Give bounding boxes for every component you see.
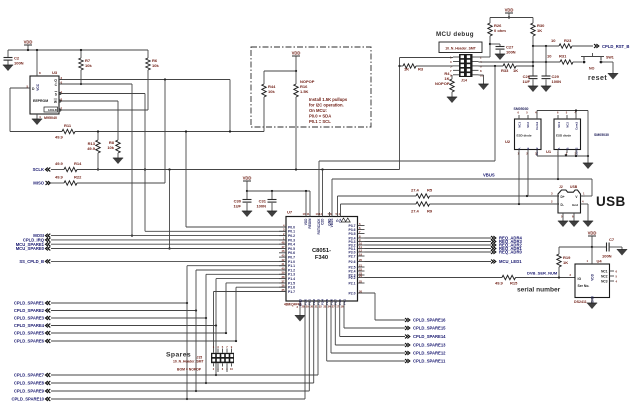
svg-text:10: 10	[230, 367, 233, 371]
svg-text:P2.0: P2.0	[349, 291, 356, 295]
svg-text:P0.1 = SCL: P0.1 = SCL	[309, 119, 331, 124]
EEPROM U3 (M95040)	[30, 70, 59, 120]
wire U3 pin HOLD line	[59, 109, 148, 111]
svg-text:11: 11	[307, 212, 310, 216]
U3 pin 4 GND stub and ground	[32, 114, 42, 125]
svg-text:2: 2	[551, 200, 553, 204]
svg-text:100N: 100N	[552, 79, 562, 84]
svg-text:MCU debug: MCU debug	[436, 31, 474, 38]
svg-text:10: 10	[303, 212, 306, 216]
svg-text:VDD: VDD	[292, 51, 301, 56]
svg-text:4: 4	[616, 279, 618, 283]
svg-text:CPLD_SPARE15: CPLD_SPARE15	[413, 326, 446, 331]
node REQ_ADR4 port	[491, 236, 522, 241]
wire RST trace from MCU	[318, 161, 320, 217]
svg-text:A: A	[557, 147, 561, 150]
svg-text:VDD: VDD	[588, 231, 597, 236]
svg-text:22: 22	[359, 267, 362, 271]
node CPLD_SPARE13 port	[405, 343, 446, 348]
svg-text:R31: R31	[559, 54, 567, 59]
resistor R6 10k	[146, 50, 160, 110]
svg-text:DVB_SER_NUM: DVB_SER_NUM	[527, 271, 558, 276]
wire MCU VDD rail	[247, 190, 310, 192]
power rail VDD top-left	[8, 49, 148, 51]
wire CPLD_SPARE11 route	[326, 301, 328, 361]
svg-text:R9: R9	[427, 209, 433, 214]
node CPLD_SPARE1 port	[14, 301, 50, 306]
wire reset row	[479, 61, 561, 63]
resistor R4 1K NOPOP with ground	[435, 71, 457, 103]
resistor R14 49.9	[55, 161, 82, 172]
svg-text:CPLD_SPARE1: CPLD_SPARE1	[14, 301, 45, 306]
resistor R33 1K	[501, 64, 518, 73]
resistor R26 0 ohm	[488, 18, 506, 58]
svg-text:46: 46	[282, 249, 285, 253]
svg-text:1K: 1K	[563, 260, 568, 265]
ground USB shield 2	[569, 213, 579, 227]
node CPLD_SPARE16 port	[405, 318, 446, 323]
svg-text:NC1: NC1	[517, 122, 521, 128]
svg-text:USB: USB	[570, 185, 578, 189]
power symbol VDD (debug)	[505, 8, 514, 19]
wire U3 pin D to SDA elbow	[10, 87, 30, 89]
svg-text:U3: U3	[52, 70, 58, 75]
svg-text:R11: R11	[64, 123, 72, 128]
wire VBUS riser and line	[331, 179, 333, 217]
wire SDA drop to P0.0	[185, 132, 187, 228]
svg-text:SM05030: SM05030	[594, 133, 609, 137]
wire Q-branch down to MISO	[164, 80, 166, 184]
node REQ_ADR2 port	[491, 243, 522, 248]
wire ESD com2 rail	[537, 155, 588, 157]
svg-text:9: 9	[231, 345, 233, 349]
svg-text:U4: U4	[597, 259, 603, 264]
svg-text:J14: J14	[461, 79, 467, 83]
svg-text:Install 1.5K pullups: Install 1.5K pullups	[309, 97, 348, 102]
node MCU_SPARE0 port	[16, 246, 51, 251]
svg-text:100N: 100N	[14, 61, 24, 66]
resistor R7 10k	[79, 49, 93, 85]
node CPLD_SPARE2 port	[14, 308, 50, 313]
svg-text:10: 10	[359, 241, 362, 245]
svg-text:2: 2	[480, 56, 482, 60]
node CPLD_SPARE12 port	[405, 351, 446, 356]
svg-text:4: 4	[582, 200, 584, 204]
wire VBUS into USB pin V	[591, 179, 593, 196]
svg-text:27.4: 27.4	[411, 188, 420, 193]
wire CPLD_SPARE16 route from P2.0	[358, 292, 376, 294]
wire CPLD_SPARE1 route	[51, 302, 187, 304]
svg-text:19: 19	[359, 252, 362, 256]
wire U3 pin Q line	[59, 79, 230, 81]
svg-text:NOPOP: NOPOP	[435, 81, 450, 86]
wire U1 top stubs	[557, 115, 559, 119]
capacitor C2 100N	[3, 50, 24, 71]
capacitor C27 100N	[490, 44, 516, 60]
svg-text:NC1: NC1	[557, 122, 561, 128]
node SS_CPLD_B port	[19, 259, 50, 264]
wire SCLK line	[51, 169, 64, 171]
MCU U7 C8051-F340 body	[284, 210, 358, 307]
svg-text:7: 7	[226, 345, 228, 349]
svg-text:34: 34	[328, 305, 331, 309]
svg-text:6: 6	[557, 111, 559, 115]
wire REQ_ADR2 line	[365, 244, 492, 246]
resistor R5 27.4	[411, 188, 433, 199]
wire CPLD_SPARE6 route	[51, 340, 236, 342]
wire SDA line (node SDA)	[10, 131, 62, 133]
svg-text:P0.0 = SDA: P0.0 = SDA	[309, 114, 331, 119]
wire SS_CPLD_B line	[51, 260, 286, 262]
svg-text:R15: R15	[510, 281, 518, 286]
wire REQ_ADR0 line	[365, 251, 492, 253]
svg-text:VDD: VDD	[505, 8, 514, 13]
capacitor C30 1UF	[233, 191, 252, 217]
wire U2 pin A to D+ line	[518, 150, 520, 205]
svg-text:3: 3	[450, 60, 452, 64]
svg-text:1: 1	[586, 259, 588, 263]
power symbol VDD (pullup box)	[292, 51, 301, 73]
svg-text:100N: 100N	[506, 50, 516, 55]
resistor R31 10	[547, 54, 573, 65]
svg-text:CPLD_SPARE10: CPLD_SPARE10	[11, 397, 44, 402]
MCU right pins P3/P2	[349, 222, 365, 296]
resistor R23 10	[551, 38, 572, 48]
svg-text:C7: C7	[609, 237, 615, 242]
label MCU debug	[436, 31, 474, 38]
resistor R9 27.4	[411, 202, 433, 214]
svg-text:CPLD_SPARE8: CPLD_SPARE8	[14, 381, 45, 386]
svg-text:NC2: NC2	[601, 274, 608, 278]
svg-text:7: 7	[450, 69, 452, 73]
svg-text:C8051-: C8051-	[312, 248, 331, 254]
svg-text:EEPROM: EEPROM	[33, 99, 48, 103]
svg-text:49.9: 49.9	[55, 175, 64, 180]
svg-text:27.4: 27.4	[411, 209, 420, 214]
svg-text:D+: D+	[561, 195, 565, 199]
svg-text:CPLD_SPARE2: CPLD_SPARE2	[14, 308, 45, 313]
svg-text:16: 16	[341, 305, 344, 309]
U1 pin B no-connect	[565, 150, 569, 158]
node CPLD_IRQ port	[23, 238, 50, 243]
svg-text:Gnd: Gnd	[572, 203, 578, 207]
node CPLD_SPARE10 port	[11, 397, 50, 402]
capacitor C26 1UF	[522, 46, 538, 92]
svg-text:VDD: VDD	[24, 40, 33, 45]
svg-text:100N: 100N	[256, 204, 266, 209]
svg-text:R5: R5	[427, 188, 433, 193]
svg-text:P2.6: P2.6	[349, 260, 356, 264]
wire MOSI line	[51, 235, 286, 237]
wire CPLD_SPARE12 route	[330, 301, 332, 353]
svg-text:✱: ✱	[565, 154, 569, 158]
svg-text:P2.7: P2.7	[349, 254, 356, 258]
U3 pin numbers right	[27, 76, 63, 111]
svg-text:31: 31	[315, 305, 318, 309]
svg-text:P2.1: P2.1	[349, 281, 356, 285]
svg-text:serial number: serial number	[517, 287, 561, 294]
svg-text:1: 1	[583, 192, 585, 196]
node MISO port	[33, 181, 50, 186]
svg-text:IO: IO	[578, 277, 582, 281]
resistor R3 1K	[403, 64, 424, 72]
svg-text:CPLD_RST_B: CPLD_RST_B	[602, 44, 629, 49]
wire CPLD_SPARE14 route	[339, 301, 341, 337]
svg-text:R23: R23	[564, 38, 572, 43]
svg-text:NC2: NC2	[566, 122, 570, 128]
svg-text:10k: 10k	[268, 89, 275, 94]
MCU left pins P0/P1	[279, 223, 295, 294]
svg-text:NO: NO	[589, 67, 595, 71]
svg-text:20: 20	[359, 258, 362, 262]
capacitor C31 100N	[256, 191, 277, 217]
svg-text:P2.4: P2.4	[321, 299, 325, 306]
resistor R11 49.9 (SDA series)	[55, 123, 75, 140]
wire CPLD_SPARE13 route	[334, 301, 336, 345]
capacitor C7 100N	[592, 237, 627, 259]
svg-text:8: 8	[480, 69, 482, 73]
svg-text:CPLD_SPARE12: CPLD_SPARE12	[413, 351, 446, 356]
wire CPLD_SPARE2 route	[51, 310, 196, 312]
wire CPLD_SPARE7 route	[51, 374, 318, 376]
svg-text:1UF: 1UF	[233, 204, 241, 209]
node CPLD_SPARE6 port	[14, 339, 50, 344]
svg-text:M95040: M95040	[44, 116, 57, 120]
note text I2C pullups	[309, 97, 348, 124]
power symbol VDD (EEPROM section)	[24, 40, 33, 52]
svg-text:6: 6	[518, 111, 520, 115]
svg-text:14: 14	[319, 212, 322, 216]
svg-text:12: 12	[359, 248, 362, 252]
svg-text:REGIN: REGIN	[308, 218, 312, 229]
node SCLK port	[33, 167, 51, 172]
svg-text:GND: GND	[591, 295, 595, 303]
node CPLD_SPARE3 port	[14, 316, 50, 321]
dashed option box (I2C pullups)	[251, 47, 371, 127]
svg-text:ESD diode: ESD diode	[556, 134, 571, 138]
svg-text:R3: R3	[418, 67, 424, 72]
svg-text:SCLK: SCLK	[33, 167, 44, 172]
svg-text:NC3: NC3	[601, 279, 608, 283]
svg-text:P1.7: P1.7	[288, 290, 295, 294]
svg-text:5: 5	[566, 111, 568, 115]
node CPLD_SPARE5 port	[14, 331, 50, 336]
svg-text:4: 4	[39, 115, 41, 119]
svg-text:D-: D-	[561, 203, 564, 207]
U3 pin bubbles	[59, 92, 61, 111]
svg-text:17: 17	[336, 305, 339, 309]
ground ESD	[583, 111, 593, 170]
svg-text:100N: 100N	[602, 254, 612, 259]
svg-text:C2D: C2D	[321, 218, 325, 225]
node VBUS	[483, 173, 495, 178]
wire REQ_ADR1 line	[365, 248, 492, 250]
wire ESD top rail	[537, 110, 588, 112]
wire CPLD_SPARE3 route	[51, 317, 206, 319]
wire MCU_SPARE1 line	[51, 243, 286, 245]
wire MCU_SPARE0 line	[51, 248, 286, 250]
svg-text:J2: J2	[559, 185, 563, 189]
svg-text:49.9: 49.9	[87, 146, 96, 151]
U3 pin 8 VCC stub	[36, 49, 41, 76]
svg-text:R22: R22	[74, 175, 82, 180]
svg-text:VBUS: VBUS	[330, 219, 334, 228]
power symbol VDD (serial)	[588, 231, 597, 249]
svg-text:CPLD_SPARE14: CPLD_SPARE14	[413, 334, 446, 339]
svg-text:5: 5	[616, 274, 618, 278]
svg-text:P2.2: P2.2	[349, 276, 356, 280]
svg-text:MISO: MISO	[33, 181, 44, 186]
svg-text:A: A	[517, 147, 521, 150]
svg-text:S: S	[55, 93, 58, 97]
wire debug row to x399 elbow	[400, 57, 454, 59]
svg-text:P3.5: P3.5	[349, 232, 356, 236]
wire C-line riser down to MOSI row	[131, 84, 133, 236]
svg-text:10: 10	[551, 38, 556, 43]
wire VDD stub to MCU	[305, 191, 307, 217]
wire CPLD_SPARE10 route	[51, 398, 305, 400]
USB connector J2	[551, 185, 585, 219]
wire MCU_LED1 line	[365, 261, 492, 263]
resistor R44 10k (SDA pullup)	[262, 71, 276, 132]
svg-text:10_N_Header_SMT: 10_N_Header_SMT	[173, 360, 204, 364]
svg-text:45: 45	[282, 254, 285, 258]
svg-text:1.5K: 1.5K	[300, 89, 309, 94]
svg-text:CPLD_SPARE3: CPLD_SPARE3	[14, 316, 45, 321]
svg-text:VCC: VCC	[36, 83, 40, 90]
node MCU_SPARE1 port	[16, 242, 51, 247]
wire CPLD_IRQ line	[51, 239, 286, 241]
svg-text:DS2411: DS2411	[574, 300, 587, 304]
resistor R8 10k with ground	[107, 101, 123, 164]
node CPLD_SPARE14 port	[405, 334, 446, 339]
svg-text:49.9: 49.9	[55, 135, 64, 140]
node CPLD_SPARE15 port	[405, 326, 446, 331]
wire CPLD_SPARE15 route	[343, 301, 345, 328]
svg-text:USB: USB	[596, 194, 626, 209]
wire U3 pin W line	[59, 100, 118, 102]
wire CPLD_SPARE8 route	[51, 382, 314, 384]
node REQ_ADR1 port	[491, 246, 522, 251]
ESD array U1	[546, 111, 609, 156]
svg-text:CPLD_SPARE5: CPLD_SPARE5	[14, 331, 45, 336]
svg-text:Com1: Com1	[574, 122, 578, 130]
svg-text:24: 24	[359, 274, 362, 278]
svg-text:10k: 10k	[107, 145, 114, 150]
svg-text:2: 2	[213, 367, 215, 371]
svg-text:REQ_ADR0: REQ_ADR0	[499, 250, 522, 255]
svg-text:29: 29	[306, 305, 309, 309]
svg-text:BOM = NOPOP: BOM = NOPOP	[177, 368, 202, 372]
wire D+ line	[340, 204, 342, 217]
svg-text:CPLD_SPARE13: CPLD_SPARE13	[413, 343, 446, 348]
wire DVB_SER_NUM line	[365, 277, 503, 279]
svg-text:CPLD_SPARE9: CPLD_SPARE9	[14, 389, 45, 394]
svg-text:VDD: VDD	[591, 273, 595, 280]
serial number chip U4 DS2411	[569, 247, 617, 309]
node DVB_SER_NUM	[527, 271, 558, 276]
wire J15 col2 below	[217, 367, 219, 373]
svg-text:HOLD: HOLD	[48, 108, 58, 112]
wire R3 row	[400, 65, 404, 67]
wire J15 col4 below	[226, 367, 228, 373]
svg-text:1: 1	[213, 345, 215, 349]
MCU bottom pin labels	[302, 299, 347, 309]
svg-text:B: B	[526, 148, 530, 150]
svg-text:5: 5	[526, 111, 528, 115]
svg-text:NC1: NC1	[601, 269, 608, 273]
resistor R16 1.5K NOPOP (SCL pullup)	[294, 71, 315, 170]
node REQ_ADR0 port	[491, 250, 522, 255]
svg-text:F340: F340	[315, 255, 328, 261]
svg-text:33: 33	[323, 305, 326, 309]
svg-text:32: 32	[319, 305, 322, 309]
svg-text:6: 6	[616, 269, 618, 273]
wire U3 pin C line	[59, 83, 132, 85]
node CPLD_RST_B	[572, 44, 629, 49]
svg-text:W: W	[54, 100, 58, 104]
svg-text:10k: 10k	[85, 63, 92, 68]
svg-text:CPLD_SPARE4: CPLD_SPARE4	[14, 323, 45, 328]
svg-text:Ser No.: Ser No.	[578, 284, 590, 288]
svg-text:R14: R14	[74, 161, 82, 166]
svg-text:NC2: NC2	[526, 122, 530, 128]
svg-text:CPLD_SPARE11: CPLD_SPARE11	[413, 359, 446, 364]
svg-text:VDD: VDD	[243, 176, 252, 181]
wire MISO line	[51, 182, 64, 184]
ground USB shield 1	[558, 213, 568, 227]
wire CPLD_SPARE4 route	[51, 325, 216, 327]
label USB	[596, 194, 626, 209]
ground under debug header	[478, 75, 488, 90]
svg-text:Spares: Spares	[166, 352, 191, 359]
svg-text:1UF: 1UF	[522, 79, 530, 84]
svg-text:1K: 1K	[513, 68, 518, 73]
svg-text:8: 8	[39, 71, 41, 75]
svg-text:C: C	[55, 83, 58, 87]
svg-text:MCU_SPARE0: MCU_SPARE0	[16, 246, 45, 251]
wire P1.7 from spares header	[213, 292, 215, 349]
svg-text:reset: reset	[588, 75, 607, 82]
svg-text:Q: Q	[54, 79, 57, 83]
svg-text:ESD diode: ESD diode	[517, 134, 532, 138]
resistor R15 49.9	[495, 275, 518, 285]
svg-text:SW1: SW1	[606, 56, 614, 60]
wire D- line	[337, 196, 339, 217]
wire R26 to header pin	[479, 56, 491, 58]
node CPLD_SPARE9 port	[14, 389, 50, 394]
svg-text:GND: GND	[299, 298, 303, 306]
svg-text:U7: U7	[287, 210, 293, 215]
wire CPLD_SPARE9 route	[51, 390, 309, 392]
resistor R22 49.9	[55, 175, 82, 186]
svg-text:2: 2	[569, 273, 571, 277]
resistor R30 1K	[531, 18, 545, 47]
svg-text:Com1: Com1	[535, 122, 539, 130]
svg-text:5: 5	[222, 345, 224, 349]
svg-text:V: V	[575, 195, 578, 199]
svg-text:U2: U2	[505, 139, 511, 144]
wire CPLD_SPARE5 route	[51, 332, 226, 334]
label reset	[588, 75, 607, 82]
svg-text:30: 30	[310, 305, 313, 309]
svg-text:3: 3	[551, 192, 553, 196]
wire R33 row	[479, 65, 504, 67]
svg-text:6: 6	[222, 367, 224, 371]
MCU top pin labels	[303, 212, 351, 234]
resistor R19 1K	[557, 247, 592, 278]
ground USB gnd pin	[581, 204, 594, 227]
